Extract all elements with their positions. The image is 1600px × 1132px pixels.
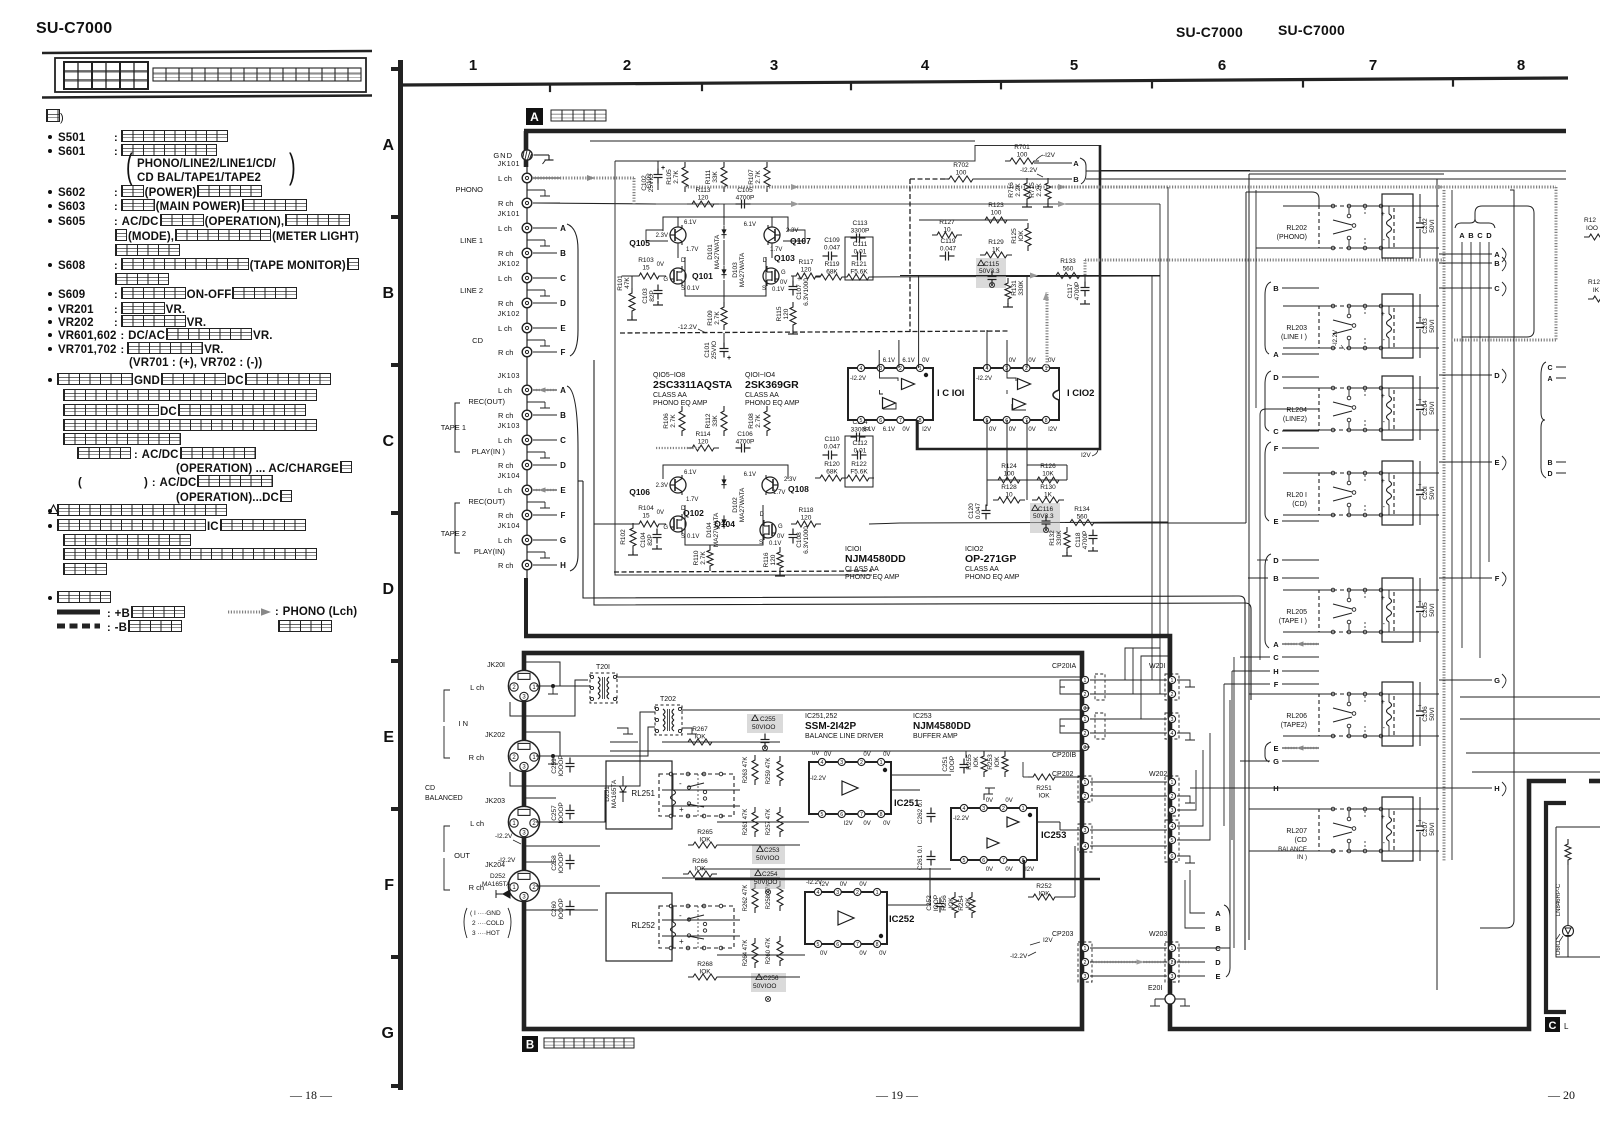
svg-text:C: C bbox=[1549, 1020, 1557, 1032]
svg-text:R105: R105 bbox=[666, 169, 673, 185]
relay RL204 coil bbox=[1382, 376, 1413, 440]
resistor R716 2.2K bbox=[1024, 178, 1030, 204]
svg-text:2.7K: 2.7K bbox=[700, 551, 707, 565]
svg-text:R251: R251 bbox=[1036, 785, 1052, 792]
RCA jack JK101 L ch @y=228 bbox=[522, 223, 532, 233]
svg-text:W203: W203 bbox=[1149, 931, 1167, 938]
wire D101-D103 chain bbox=[723, 204, 725, 225]
svg-text:33K: 33K bbox=[712, 415, 719, 427]
resistor R105 2.7K bbox=[682, 162, 688, 192]
svg-text:L ch: L ch bbox=[498, 486, 512, 495]
svg-text:50VI: 50VI bbox=[1429, 219, 1436, 233]
svg-text:D103: D103 bbox=[732, 262, 739, 278]
svg-text:IN ): IN ) bbox=[1297, 854, 1307, 861]
svg-text:A: A bbox=[1273, 640, 1279, 649]
svg-text:G: G bbox=[778, 524, 783, 530]
wire IC102 pins upward bbox=[986, 330, 988, 368]
svg-text:5: 5 bbox=[817, 942, 820, 948]
svg-text:R108: R108 bbox=[748, 413, 755, 429]
svg-text:B: B bbox=[560, 249, 566, 258]
wire IC253 out to CP202 bbox=[1037, 821, 1060, 823]
svg-text:6.1V: 6.1V bbox=[902, 358, 914, 364]
svg-text:C112: C112 bbox=[852, 440, 867, 447]
svg-text:H: H bbox=[560, 561, 566, 570]
wire x=1160 down bbox=[1159, 204, 1161, 520]
svg-text:6.1V: 6.1V bbox=[744, 472, 756, 478]
svg-text:0V: 0V bbox=[863, 752, 870, 758]
svg-text:-I2.2V: -I2.2V bbox=[806, 880, 822, 886]
svg-text:IC253: IC253 bbox=[913, 713, 932, 720]
resistor R115 120 bbox=[790, 302, 796, 330]
svg-text:3: 3 bbox=[1084, 745, 1087, 751]
svg-text:B: B bbox=[526, 1040, 534, 1052]
svg-text:G: G bbox=[663, 277, 668, 283]
svg-text:G: G bbox=[382, 1025, 394, 1042]
svg-text:R107: R107 bbox=[748, 169, 755, 185]
svg-text:5: 5 bbox=[1171, 838, 1174, 844]
wire bank to IC251 bbox=[662, 741, 780, 743]
svg-text:JK203: JK203 bbox=[485, 798, 505, 805]
letter group braces bbox=[1265, 282, 1271, 354]
svg-text:5: 5 bbox=[1070, 57, 1078, 74]
ruler tick bbox=[1000, 81, 1002, 89]
svg-text:PHONO EQ AMP: PHONO EQ AMP bbox=[965, 574, 1020, 581]
IC251 op-amp bbox=[809, 762, 891, 814]
svg-text:I N: I N bbox=[458, 719, 468, 728]
svg-text:7: 7 bbox=[899, 418, 902, 424]
svg-text:6: 6 bbox=[836, 942, 839, 948]
svg-text:-I2.2V: -I2.2V bbox=[810, 776, 826, 782]
svg-text:6: 6 bbox=[840, 812, 843, 818]
wire XLR204 to RL252 bbox=[536, 885, 600, 887]
svg-text:0V: 0V bbox=[777, 534, 784, 540]
capacitor C118 4700P bbox=[1092, 530, 1094, 536]
capacitor C259 1000P bbox=[569, 758, 571, 764]
svg-text:2.3V: 2.3V bbox=[656, 233, 668, 239]
svg-text:BUFFER AMP: BUFFER AMP bbox=[913, 733, 958, 740]
svg-text:ICIO2: ICIO2 bbox=[965, 546, 983, 553]
svg-text:R119: R119 bbox=[824, 261, 839, 268]
svg-text:47K: 47K bbox=[624, 277, 631, 289]
svg-text:560: 560 bbox=[1077, 514, 1088, 521]
svg-text:I CIO2: I CIO2 bbox=[1067, 388, 1094, 399]
svg-text:1K: 1K bbox=[1044, 492, 1053, 499]
svg-text:1: 1 bbox=[1084, 780, 1087, 786]
wire XLR203 to RL251 region bbox=[536, 790, 605, 822]
svg-text:D6IO: D6IO bbox=[1556, 941, 1562, 955]
svg-text:C115: C115 bbox=[984, 261, 999, 268]
svg-text:0.047: 0.047 bbox=[975, 502, 982, 519]
svg-text:6: 6 bbox=[1171, 854, 1174, 860]
wire R251 to CP202 bbox=[1055, 776, 1080, 778]
section C inner frame bbox=[1546, 803, 1566, 1012]
svg-text:C253: C253 bbox=[764, 847, 780, 854]
svg-text:0V: 0V bbox=[820, 951, 827, 957]
polarized capacitor C203 bbox=[1419, 294, 1421, 322]
relay RL20 I (CD) bbox=[1319, 473, 1394, 515]
svg-text:I2V: I2V bbox=[844, 821, 853, 827]
svg-text:REC(OUT): REC(OUT) bbox=[468, 397, 505, 406]
svg-text:0V: 0V bbox=[922, 358, 929, 364]
capacitor C258 1000P bbox=[569, 855, 571, 861]
svg-text:5: 5 bbox=[860, 418, 863, 424]
relay RL202 coil bbox=[1382, 194, 1413, 258]
wire net lower feedback bbox=[1066, 465, 1068, 480]
capacitor C113 3300P bbox=[851, 237, 857, 239]
svg-text:50VI: 50VI bbox=[1429, 822, 1436, 836]
svg-text:+: + bbox=[1381, 311, 1385, 318]
transistor Q105 bbox=[670, 227, 686, 243]
svg-text:R120: R120 bbox=[824, 461, 840, 468]
svg-text:1: 1 bbox=[1171, 678, 1174, 684]
svg-text:MA27WATA: MA27WATA bbox=[739, 487, 746, 522]
svg-text:A: A bbox=[1547, 376, 1552, 383]
title （部品リストは補修部品価格表に掲載） bbox=[153, 68, 361, 81]
relay RL207 unit enclosure wires bbox=[1283, 808, 1333, 810]
RCA jack R ch @y=465 bbox=[522, 460, 532, 470]
svg-text:C260: C260 bbox=[551, 901, 558, 917]
signal rail y=204 bbox=[656, 203, 1160, 205]
svg-text:1.7V: 1.7V bbox=[686, 247, 698, 253]
IC253 op-amp bbox=[951, 808, 1037, 860]
svg-text:-: - bbox=[1383, 419, 1386, 426]
W203 output letters bbox=[1177, 947, 1205, 949]
svg-text:F: F bbox=[1274, 680, 1279, 689]
svg-text:R106: R106 bbox=[663, 413, 670, 429]
svg-text:D102: D102 bbox=[732, 497, 739, 513]
svg-text:50VI: 50VI bbox=[1429, 401, 1436, 415]
svg-text:0V: 0V bbox=[859, 882, 866, 888]
svg-text:3: 3 bbox=[1084, 974, 1087, 980]
svg-text:3: 3 bbox=[770, 57, 778, 74]
svg-text:7: 7 bbox=[1002, 858, 1005, 864]
svg-text:RL251: RL251 bbox=[631, 789, 655, 798]
signal rail y=187 dotted bbox=[685, 186, 1168, 189]
svg-text:D: D bbox=[1273, 373, 1279, 382]
svg-text:C: C bbox=[1547, 365, 1552, 372]
svg-text:A: A bbox=[1494, 250, 1500, 259]
svg-text:A: A bbox=[382, 137, 394, 154]
svg-text:W20I: W20I bbox=[1149, 663, 1165, 670]
svg-text:BALANCE LINE DRIVER: BALANCE LINE DRIVER bbox=[805, 733, 884, 740]
chassis GND terminal bbox=[522, 150, 532, 160]
capacitor C101 25V10 bbox=[723, 343, 725, 349]
resistor bank R262 R258 R264 R260 bbox=[752, 883, 758, 913]
svg-text:6.1V: 6.1V bbox=[883, 427, 895, 433]
resistor R132 330K bbox=[1064, 527, 1070, 553]
ABCD hook wire bbox=[1462, 206, 1534, 337]
wire top rail B to CP202 bbox=[700, 750, 1083, 752]
svg-text:0.1V: 0.1V bbox=[769, 541, 781, 547]
EQ enclosure box bbox=[615, 146, 1101, 162]
svg-text:7: 7 bbox=[860, 812, 863, 818]
svg-text:R254: R254 bbox=[958, 895, 965, 911]
polarized capacitor C204 bbox=[1419, 376, 1421, 404]
svg-text:C120: C120 bbox=[968, 503, 975, 519]
phono R wire bbox=[534, 203, 656, 204]
svg-text:A: A bbox=[1215, 909, 1221, 918]
relay RL205 unit enclosure wires bbox=[1283, 589, 1333, 591]
ground stubs W201 bbox=[1177, 680, 1195, 687]
svg-text:0V: 0V bbox=[986, 798, 993, 804]
phono L signal dotted wire bbox=[532, 177, 634, 180]
resistor R118 120 bbox=[791, 521, 821, 527]
svg-text:PHONO: PHONO bbox=[455, 185, 483, 194]
svg-text:H: H bbox=[1273, 784, 1278, 793]
resistor R119 68K bbox=[815, 274, 847, 280]
bold 12V rail section B bbox=[695, 860, 1100, 879]
svg-text:1: 1 bbox=[1171, 946, 1174, 952]
svg-text:1: 1 bbox=[469, 57, 477, 74]
relay RL204 (LINE2) bbox=[1319, 388, 1394, 430]
relay right stub C bbox=[1439, 287, 1492, 289]
svg-text:R114: R114 bbox=[695, 431, 710, 438]
capacitor C257 1000P bbox=[569, 805, 571, 811]
resistor R116 120 bbox=[777, 547, 783, 573]
legend dashed -B line bbox=[57, 624, 100, 629]
svg-text:3300P: 3300P bbox=[851, 228, 870, 235]
transistor Q107 bbox=[764, 227, 780, 243]
svg-text:LINE 1: LINE 1 bbox=[460, 236, 483, 245]
svg-text:R103: R103 bbox=[638, 257, 654, 264]
svg-text:330K: 330K bbox=[1018, 280, 1025, 296]
relay RL203 unit enclosure wires bbox=[1283, 305, 1333, 307]
resistor R133 560 bbox=[1051, 273, 1085, 279]
svg-text:C118: C118 bbox=[1075, 532, 1082, 547]
svg-text:100: 100 bbox=[991, 210, 1002, 217]
svg-text:OUT: OUT bbox=[454, 851, 470, 860]
svg-text:LN846RP-C: LN846RP-C bbox=[1556, 883, 1562, 916]
arrow into JK103 L bbox=[536, 389, 556, 391]
svg-text:R253: R253 bbox=[987, 754, 994, 770]
svg-text:IOK: IOK bbox=[965, 897, 972, 909]
RCA jack R ch @y=415 bbox=[522, 410, 532, 420]
svg-text:-I2.2V: -I2.2V bbox=[1333, 330, 1339, 346]
resistor R104 15 bbox=[634, 521, 664, 527]
resistor R267 10K bbox=[683, 739, 717, 745]
relay RL251 contacts bbox=[669, 772, 673, 776]
wire Q105 collector rail bbox=[677, 217, 679, 227]
vertical mesh wires W202-relay bbox=[1223, 684, 1225, 826]
svg-text:IOOOP: IOOOP bbox=[558, 898, 565, 919]
svg-text:C251: C251 bbox=[942, 756, 949, 772]
left ruler tick bbox=[391, 659, 400, 663]
IC102 op-amp bbox=[974, 368, 1059, 420]
svg-text:0V: 0V bbox=[1005, 798, 1012, 804]
svg-text:G: G bbox=[663, 525, 668, 531]
svg-text:R111: R111 bbox=[705, 169, 712, 184]
svg-text:C109: C109 bbox=[824, 237, 840, 244]
svg-text:0.1V: 0.1V bbox=[687, 286, 699, 292]
svg-text:R127: R127 bbox=[939, 219, 955, 226]
svg-text:IOOOP: IOOOP bbox=[558, 802, 565, 823]
svg-text:4700P: 4700P bbox=[1074, 282, 1081, 301]
svg-text:2: 2 bbox=[1025, 366, 1028, 372]
resistor R256 10K bbox=[952, 892, 958, 918]
svg-text:0V: 0V bbox=[657, 262, 664, 268]
svg-text:G: G bbox=[781, 270, 786, 276]
section C D610 enclosure bbox=[1556, 827, 1600, 957]
svg-text:R128: R128 bbox=[1001, 484, 1017, 491]
capacitor C107 6.3V1000 bbox=[792, 281, 794, 287]
resistor R123 100 bbox=[980, 217, 1012, 223]
svg-text:2SK369GR: 2SK369GR bbox=[745, 379, 799, 391]
svg-text:E: E bbox=[560, 324, 566, 333]
svg-text:D: D bbox=[382, 581, 394, 598]
svg-text:3: 3 bbox=[1084, 706, 1087, 712]
svg-text:Q106: Q106 bbox=[629, 487, 650, 497]
svg-text:B: B bbox=[1547, 460, 1552, 467]
svg-text:PHONO EQ AMP: PHONO EQ AMP bbox=[745, 400, 800, 407]
svg-text:C105: C105 bbox=[737, 187, 753, 194]
svg-text:R122: R122 bbox=[851, 461, 867, 468]
svg-text:4: 4 bbox=[817, 890, 820, 896]
svg-text:C: C bbox=[1273, 653, 1279, 662]
svg-text:R134: R134 bbox=[1074, 506, 1090, 513]
relay RL206 (TAPE2) bbox=[1319, 694, 1394, 736]
svg-text:R ch: R ch bbox=[498, 249, 513, 258]
relay right stub E bbox=[1439, 461, 1492, 463]
svg-text:RL252: RL252 bbox=[631, 921, 655, 930]
base bias wire box upper bbox=[646, 230, 668, 241]
svg-text:R260 47K: R260 47K bbox=[766, 938, 772, 965]
svg-text:+: + bbox=[797, 276, 801, 283]
wire IC251 outputs right bbox=[891, 774, 951, 776]
svg-text:R715: R715 bbox=[1029, 182, 1036, 198]
svg-text:Q101: Q101 bbox=[692, 271, 713, 281]
bold 12V rail under ICs bbox=[917, 145, 1100, 449]
svg-text:CD: CD bbox=[472, 336, 483, 345]
svg-text:0.047: 0.047 bbox=[824, 245, 841, 252]
dotted PHONO bus vertical in relay area bbox=[1443, 190, 1446, 862]
svg-text:RL204: RL204 bbox=[1286, 407, 1307, 414]
svg-text:15: 15 bbox=[642, 513, 650, 520]
svg-text:4: 4 bbox=[1171, 731, 1174, 737]
top right long wires from EQ to relay area bbox=[1100, 170, 1250, 172]
svg-text:6.3V1000: 6.3V1000 bbox=[803, 278, 810, 306]
svg-text:0V: 0V bbox=[1009, 358, 1016, 364]
relay RL20 I unit enclosure wires bbox=[1283, 472, 1333, 474]
svg-text:10: 10 bbox=[943, 227, 951, 234]
svg-text:R113: R113 bbox=[695, 187, 710, 194]
vertical wire x=1152 from rail to B section bbox=[1151, 276, 1153, 640]
svg-text:R131: R131 bbox=[1011, 280, 1018, 296]
svg-text:2.7K: 2.7K bbox=[755, 414, 762, 428]
svg-text:0V: 0V bbox=[1048, 358, 1055, 364]
svg-text:IC253: IC253 bbox=[1041, 830, 1066, 841]
resistor R128 10 bbox=[993, 497, 1025, 503]
wires W202 to relay mesh right bbox=[1177, 770, 1196, 810]
left ruler tick bbox=[391, 511, 400, 515]
svg-text:B: B bbox=[1494, 259, 1500, 268]
svg-text:B: B bbox=[1273, 574, 1279, 583]
svg-text:0V: 0V bbox=[840, 882, 847, 888]
title 回路図 bbox=[64, 62, 148, 89]
svg-text:3: 3 bbox=[1171, 808, 1174, 814]
long wire right of relays bbox=[1480, 190, 1514, 928]
selector brace tape bbox=[567, 386, 578, 571]
svg-text:IOOP: IOOP bbox=[933, 895, 940, 911]
diode D103 MA27WATA bbox=[723, 265, 725, 278]
base bias wire box lower bbox=[663, 465, 788, 479]
svg-text:0.01: 0.01 bbox=[854, 448, 867, 455]
svg-text:82P: 82P bbox=[647, 534, 654, 546]
svg-text:A: A bbox=[1459, 231, 1465, 240]
XLR jack JK203 bbox=[508, 806, 539, 837]
svg-text:C261 0.I: C261 0.I bbox=[917, 846, 924, 871]
svg-text:6: 6 bbox=[982, 858, 985, 864]
svg-text:C119: C119 bbox=[940, 238, 955, 245]
svg-text:C: C bbox=[1273, 427, 1279, 436]
resistor R127 10 bbox=[932, 232, 962, 238]
tape1 bracket bbox=[455, 403, 460, 452]
svg-text:E: E bbox=[1273, 744, 1278, 753]
section B label バランス入出力回路 bbox=[544, 1038, 634, 1048]
diode D102 MA27WATA bbox=[723, 475, 725, 488]
svg-text:1: 1 bbox=[1171, 780, 1174, 786]
svg-text:S: S bbox=[681, 286, 685, 292]
svg-text:5: 5 bbox=[963, 858, 966, 864]
svg-text:R ch: R ch bbox=[498, 511, 513, 520]
svg-text:C104: C104 bbox=[640, 532, 647, 548]
wire R133 to relay area (dotted) bbox=[1085, 259, 1444, 262]
svg-text:-I2.2V: -I2.2V bbox=[498, 857, 516, 864]
svg-text:F: F bbox=[1274, 444, 1279, 453]
svg-text:G: G bbox=[560, 536, 566, 545]
svg-text:R716: R716 bbox=[1008, 182, 1015, 198]
svg-text:-: - bbox=[679, 911, 682, 920]
LED D610 LN846RP-C bbox=[1567, 862, 1569, 925]
svg-text:6.1V: 6.1V bbox=[863, 427, 875, 433]
svg-text:0V: 0V bbox=[780, 280, 787, 286]
ruler tick bbox=[850, 82, 852, 90]
svg-text:0V: 0V bbox=[879, 951, 886, 957]
left ruler tick bbox=[391, 67, 400, 71]
svg-text:IOK: IOK bbox=[1038, 891, 1050, 898]
svg-text:0V: 0V bbox=[989, 427, 996, 433]
svg-text:3: 3 bbox=[1084, 828, 1087, 834]
resistor R125 10K bbox=[1025, 223, 1031, 251]
top ruler line bbox=[400, 78, 1568, 85]
svg-text:R129: R129 bbox=[988, 239, 1004, 246]
section A frame + section C frame outline bbox=[524, 131, 1566, 167]
svg-text:4: 4 bbox=[821, 760, 824, 766]
wire A to right edge bbox=[1086, 170, 1566, 172]
svg-text:IK: IK bbox=[1593, 287, 1600, 294]
svg-text:C: C bbox=[382, 433, 394, 450]
svg-text:R110: R110 bbox=[693, 550, 700, 565]
svg-text:8: 8 bbox=[919, 418, 922, 424]
svg-text:R702: R702 bbox=[953, 162, 969, 169]
IC101 pin8 12V stub bbox=[917, 420, 919, 449]
resistor R102 47K bbox=[630, 523, 636, 551]
svg-text:0V: 0V bbox=[883, 821, 890, 827]
svg-text:ICIOI: ICIOI bbox=[845, 546, 861, 553]
ruler tick bbox=[1151, 80, 1153, 88]
svg-text:2: 2 bbox=[1084, 731, 1087, 737]
svg-text:LINE 2: LINE 2 bbox=[460, 286, 483, 295]
svg-text:TAPE 2: TAPE 2 bbox=[441, 529, 466, 538]
svg-text:C20I: C20I bbox=[1422, 486, 1429, 500]
relay right stub A bbox=[1439, 253, 1492, 255]
svg-text:E: E bbox=[1215, 972, 1220, 981]
resistor in C section bbox=[1565, 839, 1571, 865]
svg-text:3: 3 bbox=[836, 890, 839, 896]
svg-text:C207: C207 bbox=[1422, 821, 1429, 837]
RCA jack JK104 L ch @y=490 bbox=[522, 485, 532, 495]
svg-text:3: 3 bbox=[1171, 974, 1174, 980]
relay letter left extension wires bbox=[1257, 559, 1268, 561]
